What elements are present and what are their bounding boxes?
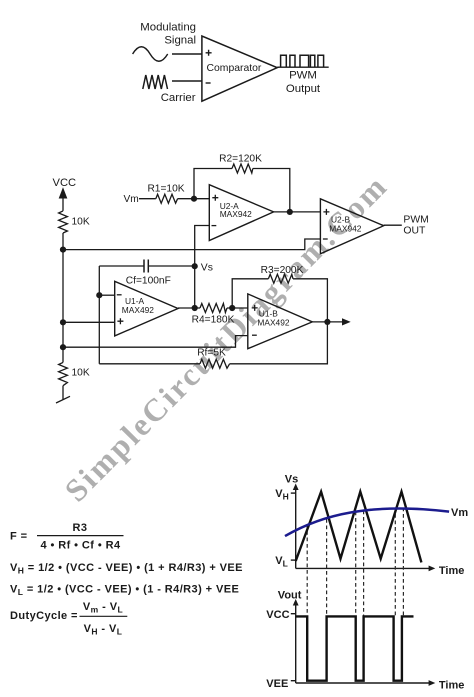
Vout graph y-axis [295,603,297,684]
svg-text:VCC: VCC [53,177,77,189]
resistor R3 [268,274,293,283]
node U2-A output [287,209,293,215]
resistor 10K bottom [59,362,68,385]
node mid-rail U1-A ref [60,319,66,325]
op-amp U1-B [248,294,312,349]
wire node to U1-A inverting input [99,294,114,296]
U2-A - [212,225,217,227]
Vout y-axis arrowhead [293,599,299,606]
Vs graph y-axis [295,487,297,568]
output arrow [342,318,351,325]
svg-text:Vout: Vout [278,589,302,601]
wire U1-A output [178,307,200,309]
svg-text:MAX492: MAX492 [257,318,289,328]
node mid-rail top [60,247,66,253]
U1-A - [117,294,122,296]
GRAPHS [291,487,430,683]
svg-text:VEE: VEE [266,678,288,690]
resistor R2 [232,164,253,173]
wire rail bottom [62,386,64,400]
MAIN SCHEMATIC [56,164,402,403]
svg-text:Signal: Signal [164,35,196,47]
node U1-B output [324,319,330,325]
node Vm/R2 feedback [191,196,197,202]
graph labels [266,474,468,692]
wire to resistor Rf [99,363,200,365]
svg-text:F =: F = [10,530,27,542]
resistor Rf [200,359,230,368]
svg-text:Carrier: Carrier [161,92,196,104]
wire mid-rail to U1-A noninverting input [63,321,115,323]
svg-text:VH - VL: VH - VL [84,623,123,637]
modulating waveform Vm (blue) [285,509,449,537]
svg-text:4 • Rf • Cf • R4: 4 • Rf • Cf • R4 [40,539,120,551]
Vs y-axis arrowhead [293,484,299,491]
VEE slash terminal [56,396,70,403]
node mid-rail U1-B ref [60,344,66,350]
wire R2 to U2-A output [253,169,290,212]
wire R3 to U1-B output [293,279,327,322]
svg-text:Output: Output [286,83,321,95]
svg-text:Time: Time [439,679,464,691]
svg-text:PWM: PWM [403,215,428,226]
resistor 10K top [59,211,68,233]
U2-A + [212,195,218,201]
fraction bar DutyCycle [80,615,128,617]
wire sine to comparator + [172,53,202,55]
node U1-A inverting [96,292,102,298]
svg-text:MAX942: MAX942 [329,224,361,234]
wire R1 to U2-A + [178,198,210,200]
resistor R4 [200,304,227,313]
op-amp U1-A [115,281,178,336]
svg-text:Time: Time [439,565,464,577]
svg-text:VH = 1/2 • (VCC - VEE) • (1 +: VH = 1/2 • (VCC - VEE) • (1 + R4/R3) + V… [10,562,243,576]
svg-text:MAX492: MAX492 [122,305,154,315]
svg-text:10K: 10K [72,217,90,228]
svg-text:R4=180K: R4=180K [192,315,235,326]
triangle waveform Vs [296,492,422,563]
wire carrier to comparator - [172,80,202,82]
comparator - [206,82,211,84]
svg-text:MAX942: MAX942 [220,209,252,219]
svg-text:10K: 10K [72,368,90,379]
Vout x-axis arrowhead [429,680,436,686]
svg-text:Vm - VL: Vm - VL [83,601,123,615]
tick VCC [291,613,296,615]
FORMULAS [10,522,243,637]
wire node to R3 [232,279,268,308]
tick VL [291,559,296,561]
tick VEE [291,680,296,682]
carrier triangle-wave symbol [143,75,168,89]
left rail wire [62,233,64,362]
svg-text:Cf=100nF: Cf=100nF [126,275,171,286]
wire feedback node to R2 [194,169,232,199]
U1-B - [252,334,257,336]
wire U1-A inverting node down to Rf [98,295,100,364]
wire comparator output [277,66,329,68]
wire mid-rail to U1-B inverting input [63,336,248,348]
svg-text:Vs: Vs [285,474,298,486]
wire U2-B output [384,224,402,226]
junction dots [60,196,331,351]
U2-B + [323,209,329,215]
wire U1-B output [312,321,342,323]
node R4/R3 [229,305,235,311]
svg-text:Comparator: Comparator [207,63,262,74]
svg-text:Vs: Vs [201,262,213,273]
resistor R1 [156,194,178,203]
comparator + [206,50,212,56]
node Vs [192,263,198,269]
PWM square wave symbol [281,55,324,67]
wire R4 to U1-B + [227,307,248,309]
svg-text:VCC: VCC [266,609,289,621]
Vs graph x-axis [296,567,430,569]
svg-text:Rf=5K: Rf=5K [197,347,226,358]
modulating signal sine symbol [133,47,168,62]
svg-text:Vm: Vm [451,507,468,519]
Vout graph x-axis [296,682,430,684]
Vs x-axis arrowhead [429,566,436,572]
tick VH [291,492,296,494]
wire Cf left to U1-A inverting node [98,266,100,295]
op-amp U2-A [209,185,273,241]
svg-text:PWM: PWM [289,70,317,82]
svg-text:R2=120K: R2=120K [219,154,262,165]
svg-text:Modulating: Modulating [140,22,196,34]
square waveform Vout [296,616,414,680]
VCC arrow [62,195,64,211]
comparator triangle [202,36,277,101]
U2-B - [323,238,328,240]
capacitor Cf wires [99,265,194,267]
svg-text:R1=10K: R1=10K [147,184,184,195]
wire Rf to U1-B output [230,322,328,364]
svg-text:DutyCycle =: DutyCycle = [10,610,78,622]
wire mid-rail to U2-B inverting input [63,239,320,250]
wire U2-A output to U2-B + [274,211,321,213]
svg-text:R3: R3 [73,522,88,534]
fraction bar F [37,535,124,537]
dashed projection lines [307,508,403,617]
U1-A + [117,318,123,324]
node U1-A output [192,305,198,311]
wire U2-A inverting input to Vs [195,226,210,309]
svg-text:Vm: Vm [124,194,139,205]
svg-text:VL = 1/2 • (VCC - VEE) • (1 -: VL = 1/2 • (VCC - VEE) • (1 - R4/R3) + V… [10,583,239,597]
U1-B + [252,305,258,311]
svg-text:R3=200K: R3=200K [261,265,304,276]
wire Vm to R1 [139,198,156,200]
op-amp U2-B [320,199,383,254]
capacitor Cf plates [144,260,148,273]
svg-text:OUT: OUT [403,226,426,237]
